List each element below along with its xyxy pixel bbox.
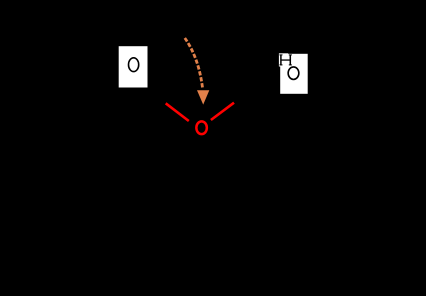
- bond: C2-O3 left ester bond (red highlighted): [166, 103, 189, 121]
- label box: right hydroxyl H-O: [279, 53, 308, 94]
- bond: O3-C4 right ester bond (red highlighted): [211, 103, 234, 120]
- curved arrow: dashed nucleophilic attack arrow onto bridging O: [185, 38, 210, 105]
- label box: left carbonyl oxygen O: [119, 46, 148, 87]
- atom: bridging oxygen O3 (red highlighted): [196, 121, 207, 134]
